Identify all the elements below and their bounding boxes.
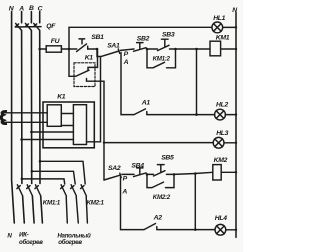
svg-text:A: A (121, 189, 127, 196)
svg-text:HL1: HL1 (213, 15, 225, 22)
svg-text:A1: A1 (141, 99, 151, 106)
svg-text:KM2:1: KM2:1 (87, 200, 105, 207)
svg-text:P: P (123, 175, 128, 182)
svg-text:KM1:1: KM1:1 (43, 200, 61, 207)
svg-text:A: A (18, 6, 24, 13)
svg-text:K1: K1 (85, 54, 94, 61)
svg-text:N: N (7, 233, 12, 240)
svg-text:SB4: SB4 (131, 162, 144, 169)
svg-text:HL3: HL3 (216, 130, 228, 137)
svg-text:N: N (9, 6, 15, 13)
svg-text:KM1: KM1 (216, 35, 230, 42)
svg-text:A2: A2 (153, 215, 163, 222)
svg-text:обогрев: обогрев (19, 239, 43, 246)
svg-text:SB3: SB3 (162, 32, 175, 39)
svg-text:KM2: KM2 (214, 157, 228, 164)
svg-text:SB2: SB2 (137, 36, 150, 43)
svg-text:N: N (232, 7, 238, 14)
svg-text:SB5: SB5 (161, 155, 174, 162)
svg-text:KM2:2: KM2:2 (153, 194, 171, 201)
svg-text:QF: QF (46, 23, 56, 30)
svg-text:B: B (29, 5, 34, 12)
svg-text:HL4: HL4 (215, 215, 227, 222)
svg-text:SB1: SB1 (91, 34, 104, 41)
svg-text:K1: K1 (57, 93, 66, 100)
svg-text:FU: FU (51, 38, 61, 45)
svg-text:HL2: HL2 (216, 101, 228, 108)
svg-text:P: P (124, 51, 129, 58)
svg-text:обогрев: обогрев (58, 239, 82, 246)
svg-text:C: C (38, 6, 43, 13)
svg-text:SA2: SA2 (108, 165, 121, 172)
svg-text:SA1: SA1 (107, 43, 120, 50)
svg-text:ИК-: ИК- (19, 231, 29, 238)
svg-text:KM1:2: KM1:2 (153, 56, 171, 63)
svg-text:A: A (123, 59, 129, 66)
